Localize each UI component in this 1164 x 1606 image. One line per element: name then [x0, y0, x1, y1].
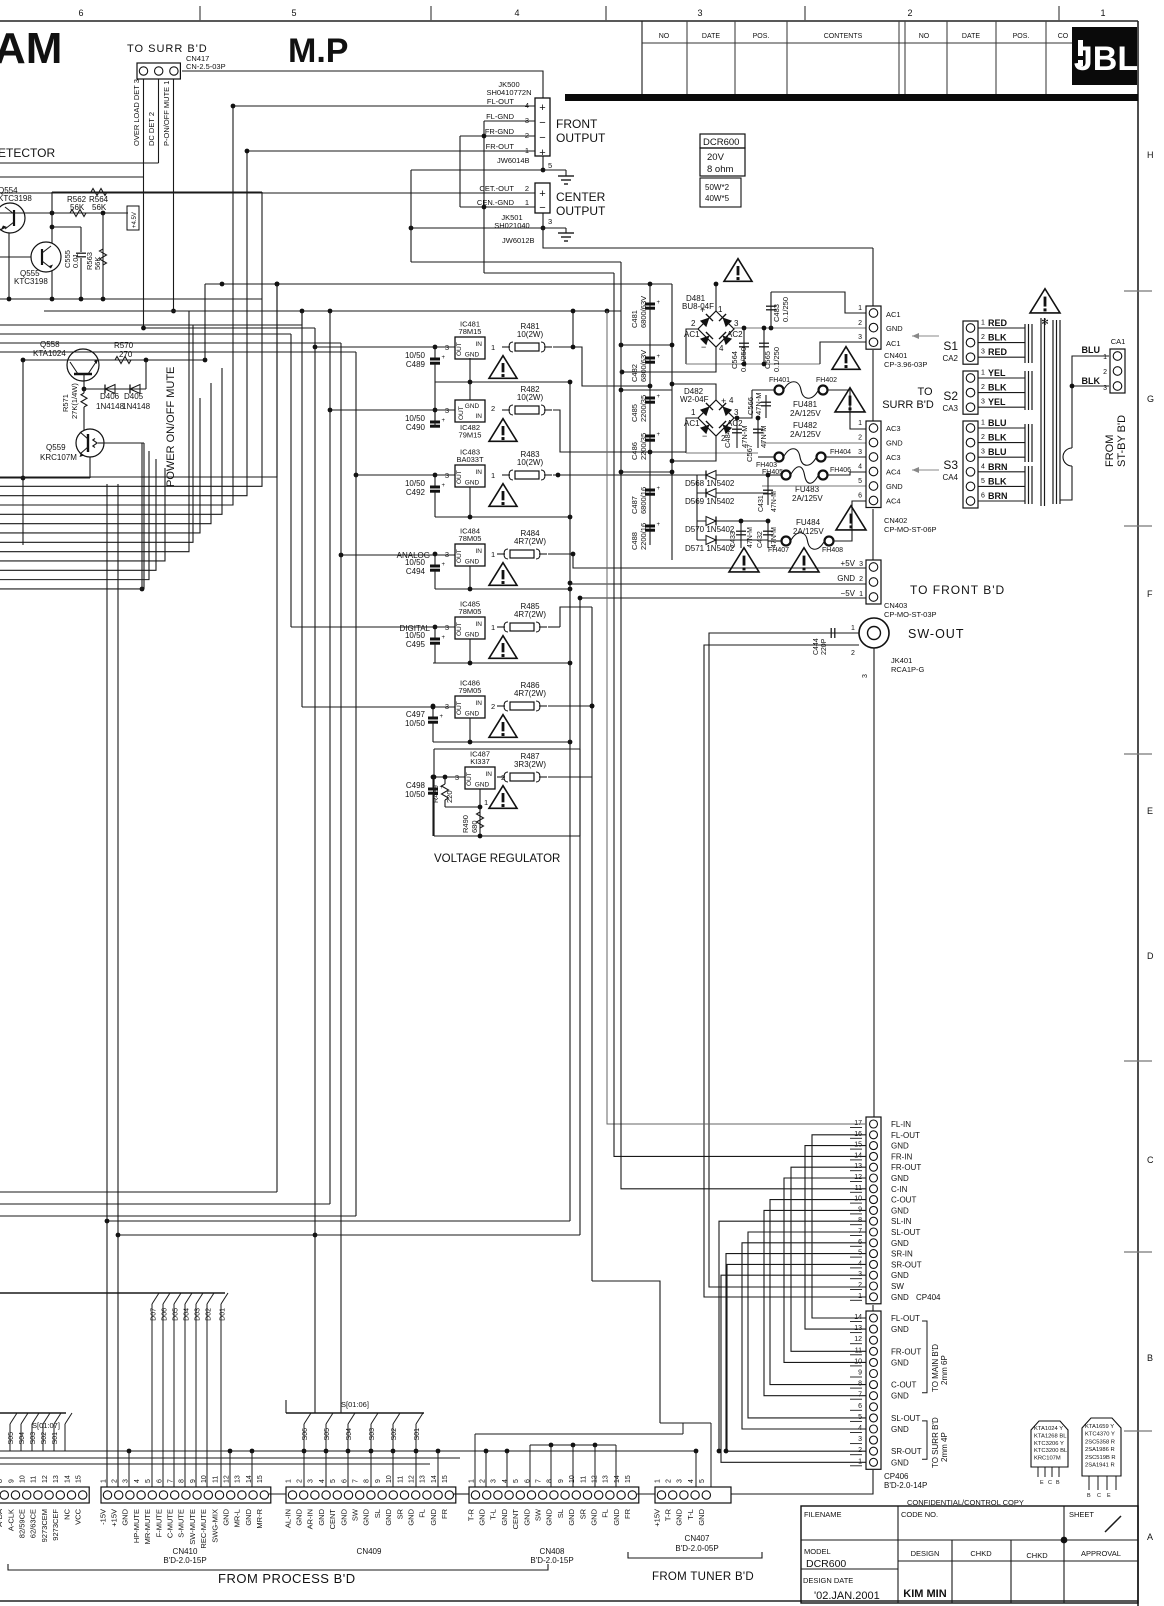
svg-text:FR: FR [440, 1508, 449, 1519]
svg-text:GND: GND [465, 352, 480, 359]
svg-text:GND: GND [891, 1325, 909, 1334]
wire c444 down [709, 633, 866, 1287]
svg-text:−: − [539, 202, 545, 214]
wire diode row [84, 388, 146, 390]
svg-text:0.1/250: 0.1/250 [781, 297, 790, 322]
svg-text:DIGITAL: DIGITAL [399, 624, 430, 633]
warning triangle near IC481 [489, 356, 517, 379]
wire rail 719 [719, 1221, 866, 1451]
svg-text:FH406: FH406 [830, 467, 851, 474]
svg-text:HP-MUTE: HP-MUTE [132, 1509, 141, 1543]
svg-text:14: 14 [614, 1475, 621, 1483]
wire q559 emitter [89, 457, 91, 478]
svg-text:H: H [1147, 150, 1154, 160]
svg-text:5: 5 [330, 1479, 337, 1483]
svg-text:1N4148: 1N4148 [122, 402, 151, 411]
svg-text:3: 3 [858, 449, 862, 456]
svg-text:FL-OUT: FL-OUT [487, 97, 515, 106]
svg-text:C487: C487 [630, 496, 639, 514]
wire IC486 gnd [469, 718, 471, 742]
warning triangle psu1 [832, 347, 860, 370]
wire h325 [0, 311, 302, 325]
connector JK500 front output [535, 98, 550, 156]
svg-text:SR-OUT: SR-OUT [891, 1260, 922, 1269]
svg-text:62/63CE: 62/63CE [29, 1509, 38, 1538]
right ruler tick [1124, 290, 1152, 292]
svg-text:14: 14 [64, 1475, 71, 1483]
wire FU482 out [826, 456, 866, 458]
svg-text:15: 15 [76, 1475, 83, 1483]
wire sw2 down [704, 645, 866, 1297]
capacitor C444 [826, 632, 859, 634]
svg-text:E: E [1107, 1493, 1111, 1499]
wire h311 [44, 310, 621, 312]
svg-text:C483: C483 [772, 304, 781, 322]
svg-text:+: + [657, 522, 661, 528]
svg-text:FILENAME: FILENAME [804, 1510, 842, 1519]
wire JK501 pin3 [542, 213, 544, 228]
svg-text:DATE: DATE [962, 33, 980, 40]
regulator IC482 [455, 400, 485, 422]
ground center output [565, 228, 567, 233]
svg-text:3: 3 [548, 217, 552, 226]
svg-text:10/50: 10/50 [405, 479, 426, 488]
svg-text:Q559: Q559 [46, 443, 66, 452]
svg-text:8: 8 [547, 1479, 554, 1483]
svg-text:4: 4 [514, 8, 519, 18]
thick separator bar [565, 94, 1138, 101]
wire gnd link front [411, 169, 566, 171]
svg-text:12: 12 [42, 1475, 49, 1483]
top ruler tick [1058, 6, 1060, 21]
sheet border right edge [1137, 21, 1139, 1606]
svg-text:+15V: +15V [110, 1509, 119, 1527]
svg-text:OUT: OUT [466, 772, 473, 786]
svg-text:+: + [539, 102, 545, 114]
svg-text:+: + [700, 305, 705, 315]
svg-text:3: 3 [981, 349, 985, 356]
wire conn column b [872, 350, 874, 421]
connector CN407 [655, 1487, 731, 1503]
svg-text:−: − [539, 117, 545, 129]
svg-text:7: 7 [168, 1479, 175, 1483]
regulator IC483 [455, 465, 485, 487]
svg-text:20V: 20V [707, 152, 725, 163]
svg-text:IN: IN [476, 700, 483, 707]
svg-text:TO FRONT B'D: TO FRONT B'D [910, 583, 1005, 597]
transistor Q554 [0, 203, 25, 233]
svg-text:79M05: 79M05 [459, 686, 482, 695]
wire IC487 out [548, 776, 592, 778]
wire IC487 bottom [434, 835, 580, 837]
svg-text:S02: S02 [391, 1428, 398, 1441]
svg-text:2: 2 [858, 320, 862, 327]
wire vert 144 [143, 443, 145, 589]
svg-text:IN: IN [476, 548, 483, 555]
svg-text:GND: GND [545, 1508, 554, 1525]
svg-text:R570: R570 [114, 341, 134, 350]
svg-text:REC-MUTE: REC-MUTE [199, 1509, 208, 1549]
svg-text:3: 3 [308, 1479, 315, 1483]
svg-text:2A/125V: 2A/125V [793, 527, 824, 536]
svg-text:C433: C433 [730, 531, 737, 548]
svg-text:IN: IN [476, 621, 483, 628]
svg-text:1: 1 [1100, 8, 1105, 18]
svg-text:4R7(2W): 4R7(2W) [514, 610, 546, 619]
svg-text:2: 2 [666, 1479, 673, 1483]
svg-text:F-MUTE: F-MUTE [154, 1509, 163, 1537]
svg-text:0.1/250: 0.1/250 [772, 347, 781, 372]
svg-text:6800/63V: 6800/63V [639, 296, 648, 328]
svg-text:1: 1 [858, 305, 862, 312]
svg-text:KTA1024 Y: KTA1024 Y [1034, 1426, 1063, 1432]
svg-text:FU481: FU481 [793, 400, 818, 409]
svg-text:2SC519B R: 2SC519B R [1085, 1455, 1116, 1461]
svg-text:OUT: OUT [456, 549, 463, 563]
capacitor C565 [763, 328, 765, 364]
svg-text:GND: GND [500, 1508, 509, 1525]
warning triangle near IC482 [489, 419, 517, 442]
svg-text:KIM MIN: KIM MIN [903, 1588, 946, 1600]
svg-text:+: + [442, 483, 446, 489]
JBL logo [1072, 27, 1137, 85]
wire IC487 frame [434, 748, 580, 750]
wire detector out b [0, 176, 144, 178]
svg-text:78M05: 78M05 [459, 607, 482, 616]
svg-text:T-R: T-R [466, 1508, 475, 1521]
wire D481 bottom [622, 347, 716, 372]
svg-text:CA3: CA3 [942, 404, 958, 413]
wire IC484 feed [341, 554, 455, 556]
svg-text:6: 6 [156, 1479, 163, 1483]
svg-text:CP-MO-ST-03P: CP-MO-ST-03P [884, 610, 937, 619]
svg-text:C432: C432 [757, 531, 764, 548]
svg-text:4: 4 [729, 396, 734, 405]
svg-text:CHKD: CHKD [970, 1549, 992, 1558]
svg-text:56K: 56K [70, 203, 85, 212]
warning triangle psu3 [836, 506, 866, 530]
svg-text:9: 9 [375, 1479, 382, 1483]
svg-text:79M15: 79M15 [459, 431, 482, 440]
svg-text:AC1: AC1 [886, 339, 901, 348]
svg-text:FR-OUT: FR-OUT [891, 1163, 921, 1172]
svg-text:KRC107M: KRC107M [40, 453, 77, 462]
svg-text:CP-3.96-03P: CP-3.96-03P [884, 360, 927, 369]
svg-text:2mm 4P: 2mm 4P [940, 1432, 949, 1462]
diode D570 [697, 520, 768, 522]
wire Q555 emitter [51, 270, 53, 299]
svg-text:JBL: JBL [1074, 40, 1138, 78]
resistor R485 [497, 626, 505, 628]
svg-text:R490: R490 [461, 815, 470, 833]
diode D568 [697, 474, 768, 476]
top ruler tick [430, 6, 432, 21]
diode D405 [130, 385, 140, 394]
svg-text:✻: ✻ [1041, 317, 1049, 327]
svg-text:56K: 56K [92, 203, 107, 212]
svg-text:SH021040: SH021040 [494, 221, 529, 230]
svg-text:10/50: 10/50 [405, 351, 426, 360]
svg-text:78M15: 78M15 [459, 327, 482, 336]
svg-text:YEL: YEL [988, 397, 1006, 407]
svg-text:27K(1/4W): 27K(1/4W) [70, 383, 79, 419]
svg-text:GND: GND [362, 1508, 371, 1525]
svg-text:BRN: BRN [988, 491, 1008, 501]
svg-text:MR-MUTE: MR-MUTE [143, 1509, 152, 1544]
svg-text:4: 4 [134, 1479, 141, 1483]
svg-text:47N-M: 47N-M [754, 392, 763, 415]
capacitor C484 [736, 418, 738, 448]
svg-text:13: 13 [53, 1475, 60, 1483]
svg-text:TO MAIN B'D: TO MAIN B'D [931, 1344, 940, 1392]
svg-text:CONTENTS: CONTENTS [824, 33, 863, 40]
svg-text:BLK: BLK [988, 383, 1007, 393]
svg-text:FROM: FROM [1104, 435, 1116, 467]
right ruler tick [1124, 1060, 1152, 1062]
svg-text:−: − [539, 132, 545, 144]
svg-text:FROM PROCESS B'D: FROM PROCESS B'D [218, 1571, 356, 1586]
svg-text:6: 6 [858, 493, 862, 500]
svg-text:YEL: YEL [988, 368, 1006, 378]
svg-text:GND: GND [429, 1508, 438, 1525]
svg-text:S-MUTE: S-MUTE [177, 1509, 186, 1538]
svg-text:2: 2 [297, 1479, 304, 1483]
svg-text:SHEET: SHEET [1069, 1510, 1094, 1519]
node R562 right [101, 211, 106, 216]
svg-text:KTC3200 BL: KTC3200 BL [1034, 1448, 1068, 1454]
svg-text:GND: GND [891, 1206, 909, 1215]
svg-text:CENT: CENT [511, 1509, 520, 1530]
svg-text:6: 6 [858, 1403, 862, 1410]
svg-text:SURR B'D: SURR B'D [882, 399, 934, 411]
svg-text:GND: GND [407, 1508, 416, 1525]
svg-text:5: 5 [858, 478, 862, 485]
svg-text:D02: D02 [206, 1308, 213, 1321]
svg-text:D405: D405 [124, 392, 144, 401]
svg-text:2: 2 [858, 1282, 862, 1289]
wire IC483 out [553, 474, 697, 476]
svg-text:GND: GND [891, 1174, 909, 1183]
svg-text:A-CLK: A-CLK [6, 1509, 15, 1531]
svg-text:8 ohm: 8 ohm [707, 164, 733, 175]
svg-text:2A/125V: 2A/125V [792, 494, 823, 503]
right ruler tick [1124, 1430, 1152, 1432]
wire rail 607 [607, 311, 866, 1124]
right ruler tick [1124, 525, 1152, 527]
svg-text:2: 2 [981, 334, 985, 341]
svg-text:G: G [1147, 394, 1154, 404]
svg-text:6: 6 [78, 8, 83, 18]
svg-text:2A/125V: 2A/125V [790, 409, 821, 418]
svg-text:A: A [1147, 1532, 1153, 1542]
connector CA1 [1110, 349, 1125, 393]
svg-text:T-L: T-L [686, 1509, 695, 1520]
svg-text:GND: GND [891, 1271, 909, 1280]
svg-text:KI337: KI337 [470, 757, 490, 766]
svg-text:KTC3206 Y: KTC3206 Y [1034, 1441, 1064, 1447]
svg-text:S04: S04 [346, 1428, 353, 1441]
wire h343 [0, 342, 341, 344]
svg-text:S06: S06 [302, 1428, 309, 1441]
bus D01-07 [0, 1292, 225, 1294]
svg-text:3: 3 [981, 449, 985, 456]
spec box DCR600 [700, 134, 745, 148]
svg-text:DATE: DATE [702, 33, 720, 40]
svg-text:C489: C489 [406, 360, 426, 369]
svg-text:8: 8 [179, 1479, 186, 1483]
svg-text:GND: GND [339, 1508, 348, 1525]
wire d row links [740, 520, 742, 522]
svg-text:DCR600: DCR600 [703, 137, 739, 148]
svg-text:1: 1 [851, 625, 855, 632]
svg-text:GND: GND [886, 439, 903, 448]
svg-text:AR-IN: AR-IN [306, 1509, 315, 1529]
svg-text:CP404: CP404 [916, 1293, 941, 1302]
svg-text:1: 1 [100, 1479, 107, 1483]
svg-text:OUTPUT: OUTPUT [556, 131, 606, 145]
svg-text:SL-IN: SL-IN [891, 1217, 912, 1226]
svg-text:220: 220 [445, 790, 454, 803]
wire D481 right [734, 327, 866, 329]
wire IC483 feed [356, 474, 455, 476]
svg-text:D569 1N5402: D569 1N5402 [685, 497, 735, 506]
svg-text:SL-OUT: SL-OUT [891, 1228, 920, 1237]
resistor R484 [497, 553, 505, 555]
svg-text:OUT: OUT [456, 622, 463, 636]
wire cn408 feed b [475, 1433, 683, 1435]
svg-text:AC2: AC2 [727, 330, 743, 339]
wire center to CN401 [543, 228, 873, 248]
svg-text:C567: C567 [745, 444, 754, 462]
wire rail 580b [579, 598, 581, 1235]
wire q554 collector [8, 233, 10, 299]
connector S2 [963, 371, 978, 414]
svg-text:5: 5 [513, 1479, 520, 1483]
transistor Q559 [76, 429, 104, 457]
svg-text:0.01: 0.01 [71, 253, 80, 268]
diode D569 [697, 492, 768, 494]
svg-text:1N4148: 1N4148 [96, 402, 125, 411]
capacitor C567 [757, 418, 759, 448]
svg-text:FRONT: FRONT [556, 117, 598, 131]
svg-text:13: 13 [420, 1475, 427, 1483]
svg-text:1: 1 [654, 1479, 661, 1483]
svg-text:C488: C488 [630, 532, 639, 550]
svg-text:F: F [1147, 589, 1153, 599]
wire conn column c [872, 509, 874, 560]
svg-text:C482: C482 [630, 364, 639, 382]
svg-text:FL-OUT: FL-OUT [891, 1314, 920, 1323]
svg-text:S01: S01 [414, 1428, 421, 1441]
svg-text:47N-M: 47N-M [771, 491, 778, 512]
svg-text:C486: C486 [630, 442, 639, 460]
svg-text:15: 15 [625, 1475, 632, 1483]
svg-text:FH408: FH408 [822, 547, 843, 554]
svg-text:56K: 56K [93, 257, 102, 270]
svg-text:POS.: POS. [1013, 33, 1030, 40]
svg-text:CN407: CN407 [685, 1534, 710, 1543]
regulator IC486 [455, 696, 485, 718]
transformer windings [1024, 324, 1026, 363]
wire D482 left [686, 418, 698, 453]
connector S3 [963, 421, 978, 508]
svg-text:+15V: +15V [652, 1509, 661, 1527]
svg-text:ST-BY B'D: ST-BY B'D [1116, 415, 1128, 467]
svg-text:C564: C564 [730, 351, 739, 369]
svg-text:OUTPUT: OUTPUT [556, 204, 606, 218]
svg-text:KTC3198: KTC3198 [14, 277, 48, 286]
capacitor C432 [767, 521, 769, 548]
svg-text:2: 2 [1103, 369, 1107, 376]
svg-text:1: 1 [718, 305, 723, 314]
svg-text:1: 1 [525, 198, 529, 207]
svg-text:FROM TUNER B'D: FROM TUNER B'D [652, 1571, 754, 1583]
wire D482 bottom [672, 436, 716, 461]
svg-text:BU8-04F: BU8-04F [682, 302, 714, 311]
bracket process [8, 1564, 548, 1570]
wire CN417 pin1 down [173, 79, 175, 311]
svg-text:+5V: +5V [841, 559, 856, 568]
connector CN409 [286, 1487, 456, 1503]
wire diode col [696, 475, 698, 540]
svg-text:12: 12 [854, 1336, 862, 1343]
resistor R481 [502, 346, 510, 348]
wire Q554 base [0, 212, 128, 214]
svg-text:GND: GND [886, 482, 903, 491]
svg-text:8: 8 [364, 1479, 371, 1483]
svg-text:13: 13 [235, 1475, 242, 1483]
warning triangle psu4 [729, 548, 759, 572]
svg-text:FH401: FH401 [769, 377, 790, 384]
svg-text:GND: GND [465, 711, 480, 718]
svg-text:S2: S2 [943, 389, 958, 403]
svg-text:1: 1 [691, 408, 696, 417]
wire Q558 collector rail [23, 359, 205, 361]
svg-text:SR: SR [578, 1508, 587, 1519]
svg-text:W2-04F: W2-04F [680, 395, 709, 404]
svg-text:CO: CO [1058, 33, 1069, 40]
wire to CN401 pin1 [771, 292, 866, 313]
wire rail 614 [614, 273, 866, 1156]
wire cap bank rail [649, 284, 651, 545]
arrow left 1 [912, 335, 939, 337]
svg-text:AM: AM [0, 24, 62, 73]
svg-text:4: 4 [719, 344, 724, 353]
svg-text:10/50: 10/50 [405, 790, 426, 799]
svg-text:IN: IN [476, 469, 483, 476]
connector CP404 [866, 1117, 881, 1304]
svg-text:D03: D03 [195, 1308, 202, 1321]
wire IC485 out [548, 626, 560, 628]
svg-text:CA2: CA2 [942, 354, 958, 363]
svg-text:B'D-2.0-15P: B'D-2.0-15P [530, 1556, 573, 1565]
svg-text:SW-OUT: SW-OUT [908, 627, 964, 641]
svg-text:15: 15 [257, 1475, 264, 1483]
svg-text:6: 6 [981, 493, 985, 500]
svg-text:MR-L: MR-L [233, 1509, 242, 1527]
svg-text:TO SURR B'D: TO SURR B'D [931, 1417, 940, 1468]
svg-text:R489: R489 [431, 785, 440, 803]
svg-text:D04: D04 [184, 1308, 191, 1321]
wire FR-OUT [247, 150, 535, 152]
wire FR-GND [460, 135, 535, 137]
svg-text:POS.: POS. [753, 33, 770, 40]
svg-text:40W*5: 40W*5 [705, 194, 730, 203]
svg-text:S3: S3 [943, 458, 958, 472]
svg-text:C494: C494 [406, 567, 426, 576]
svg-text:CN409: CN409 [357, 1547, 382, 1556]
svg-text:C431: C431 [758, 495, 765, 512]
